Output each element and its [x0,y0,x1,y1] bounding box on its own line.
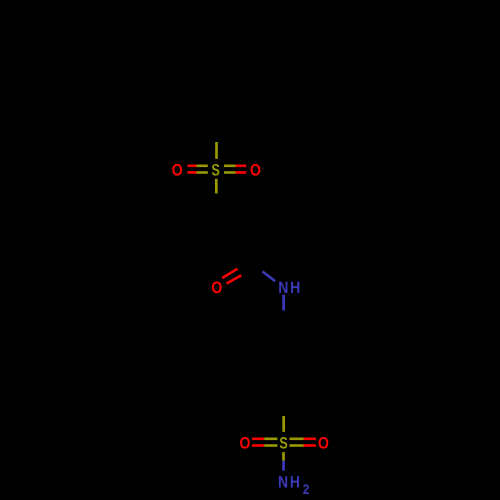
atom N-H (amide) [278,279,302,297]
bond aryl C4-S (lower half, sulfur-olive) [282,416,285,432]
svg-text:O: O [239,434,250,452]
bond phenyl C1-S (upper half, carbon-black) [215,115,218,142]
atom O (right of top sulfonyl) [250,161,261,179]
double bond S=O top-right, lower line [224,171,246,174]
double bond O=S bottom-left, upper line [252,437,277,440]
double bond S=O bottom-right, upper line [290,437,316,440]
bond C-N amide (nitrogen-blue half) [262,271,275,281]
bond S-CH2 (upper half, sulfur-olive) [215,179,218,194]
double bond S=O bottom-right, lower line [290,444,316,447]
bond S-CH2 (lower half, carbon-black) [215,194,218,212]
bond CH2-C carbonyl (carbon-black) [249,228,252,262]
subscript 2 of NH2 [303,481,310,497]
benzene ring (para-substituted, carbon-black) [251,335,317,411]
svg-text:2: 2 [303,481,310,497]
double bond C=O amide, outer line: carbon-black half [238,264,246,269]
double bond O=S top-left, lower line [188,171,208,174]
atom O (right of bottom sulfonyl) [318,434,329,452]
svg-text:S: S [279,434,287,452]
bond C-N amide (carbon-black half) [250,262,262,272]
double bond S=O top-right, upper line [224,165,246,168]
atom S (top sulfonyl) [212,161,220,179]
double bond O=S top-left, upper line [188,165,208,168]
double bond C=O amide, outer line: oxygen-red half [222,269,237,278]
svg-text:NH: NH [278,279,302,297]
atom O (left of top sulfonyl) [172,161,183,179]
atom S (bottom sulfonamide) [279,434,287,452]
double bond O=S bottom-left, lower line [252,444,277,447]
bond aryl C4-S (upper half, carbon-black) [282,411,285,416]
svg-text:O: O [318,434,329,452]
svg-text:O: O [211,279,222,297]
bond CH2-CH2 (carbon-black) [216,212,250,228]
bond phenyl C1-S (lower half, sulfur-olive) [215,142,218,159]
svg-text:NH: NH [278,473,302,491]
svg-text:S: S [212,161,220,179]
bond S-NH2 (lower half, nitrogen-blue) [282,461,285,471]
svg-text:O: O [250,161,261,179]
bond N-C aryl (nitrogen-blue half) [282,295,285,311]
double bond C=O amide, inner line: oxygen-red half [227,275,242,283]
svg-text:O: O [172,161,183,179]
atom O (amide carbonyl) [211,279,222,297]
bond S-NH2 (upper half, sulfur-olive) [282,452,285,461]
bond N-C aryl (carbon-black half) [282,311,285,335]
benzene ring (phenyl, top, carbon-black) [185,41,249,115]
atom O (left of bottom sulfonyl) [239,434,250,452]
atom N-H2 (sulfonamide) [278,473,302,491]
